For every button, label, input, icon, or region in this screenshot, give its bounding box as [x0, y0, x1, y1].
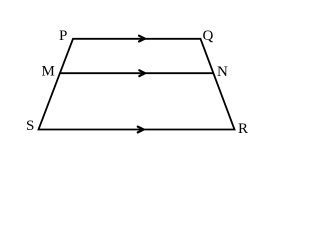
svg-text:Q: Q	[203, 28, 214, 44]
svg-text:M: M	[42, 64, 55, 80]
svg-text:R: R	[238, 121, 248, 137]
svg-text:P: P	[59, 28, 67, 44]
svg-text:N: N	[217, 64, 228, 80]
svg-text:S: S	[26, 118, 34, 134]
